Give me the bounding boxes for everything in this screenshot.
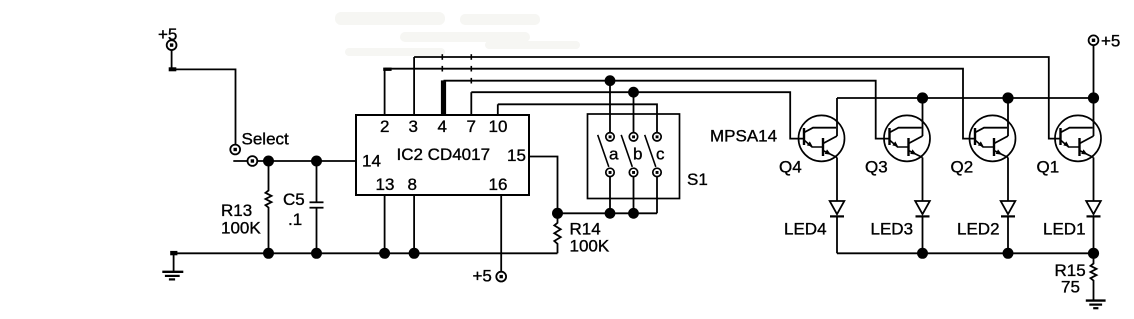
junction C5 bottom — [311, 248, 322, 259]
LED LED3 — [915, 201, 930, 253]
svg-text:15: 15 — [507, 146, 526, 165]
wire pin 13 down — [384, 195, 386, 253]
op-amp / IC U1 IC2 CD4017 box — [356, 115, 529, 195]
svg-text:75: 75 — [1061, 278, 1080, 297]
resistor R14 — [554, 213, 560, 253]
junction LED2 bottom — [1003, 248, 1014, 259]
svg-text:4: 4 — [438, 117, 447, 136]
power +5 bottom terminal — [496, 272, 506, 282]
wire pin 16 to +5 — [500, 195, 502, 272]
svg-text:10: 10 — [489, 117, 508, 136]
svg-text:100K: 100K — [570, 237, 610, 256]
svg-text:.1: .1 — [288, 210, 302, 229]
svg-text:Q3: Q3 — [865, 158, 888, 177]
svg-text:13: 13 — [376, 175, 395, 194]
ground left — [162, 251, 183, 280]
power +5 top-left terminal — [167, 40, 177, 50]
wire S1 a bottom — [609, 177, 611, 214]
svg-text:Q1: Q1 — [1037, 158, 1060, 177]
svg-text:b: b — [633, 145, 642, 164]
wire LED bottom rail — [837, 252, 1094, 254]
svg-text:LED2: LED2 — [957, 220, 1000, 239]
junction S1 b bottom — [628, 208, 639, 219]
switch S1 section c — [645, 133, 665, 177]
junction LED1 R15 — [1088, 248, 1099, 259]
wire S1 b riser — [633, 92, 635, 132]
ground right — [1086, 301, 1106, 309]
svg-text:16: 16 — [489, 175, 508, 194]
wire pin 10 riser — [497, 104, 499, 115]
svg-text:14: 14 — [362, 152, 381, 171]
svg-text:Q4: Q4 — [779, 158, 802, 177]
wire pin 7 to Q4 base — [471, 92, 804, 138]
capacitor C5 — [310, 161, 324, 253]
svg-text:7: 7 — [467, 117, 476, 136]
wire pin 3 to Q1 base — [414, 57, 1060, 139]
resistor R13 — [266, 161, 272, 253]
wire +5 top-right down — [1093, 45, 1095, 98]
junction Q2 collector — [1002, 92, 1013, 103]
LED LED2 — [1001, 201, 1016, 253]
switch Select terminal bottom — [248, 156, 258, 166]
svg-text:LED1: LED1 — [1043, 220, 1086, 239]
wire pin 2 to Q2 base — [385, 69, 975, 139]
ground rail left — [174, 252, 558, 254]
faint scan ghost marks — [335, 12, 580, 56]
junction Q3 collector — [917, 92, 928, 103]
junction pin 13 bottom — [379, 248, 390, 259]
svg-text:a: a — [609, 145, 619, 164]
wire pin 15 to R14 — [529, 157, 558, 214]
junction S1 b feed — [628, 87, 639, 98]
wire pin 10 to S1 c — [498, 104, 657, 132]
wire +5 to Select — [172, 69, 236, 144]
switch S1 section b — [621, 133, 642, 177]
svg-text:100K: 100K — [221, 219, 261, 238]
junction pin 8 bottom — [409, 248, 420, 259]
svg-text:c: c — [656, 145, 665, 164]
junction S1 a bottom — [605, 208, 616, 219]
wire pin 4 to Q3 base — [444, 81, 890, 139]
junction LED3 bottom — [917, 248, 928, 259]
wire pin 2 riser — [384, 69, 386, 115]
wire pin 2 elbow bold mark — [383, 68, 391, 71]
wire pin 3 riser — [413, 57, 415, 115]
switch Select terminal top — [230, 145, 240, 155]
power +5 top-right terminal — [1089, 35, 1099, 45]
wire +5 top-left down — [171, 50, 173, 69]
svg-text:3: 3 — [409, 117, 418, 136]
svg-text:LED4: LED4 — [784, 220, 827, 239]
wire S1 bottom rail — [558, 212, 658, 214]
svg-text:+5: +5 — [473, 267, 492, 286]
junction R13 bottom — [263, 248, 274, 259]
resistor R15 — [1091, 253, 1097, 300]
LED LED4 — [830, 201, 845, 253]
svg-text:C5: C5 — [283, 190, 305, 209]
svg-text:LED3: LED3 — [871, 220, 914, 239]
junction R14 top — [552, 208, 563, 219]
wire collector rail — [837, 97, 1094, 99]
transistor Q3 — [884, 98, 930, 201]
junction C5 top — [311, 156, 322, 167]
svg-text:+5: +5 — [1101, 32, 1120, 51]
wire Select rail to IC pin 14 — [233, 160, 356, 162]
switch S1 section a — [598, 133, 619, 177]
svg-text:S1: S1 — [687, 170, 708, 189]
wire pin 8 down — [413, 195, 415, 253]
svg-text:MPSA14: MPSA14 — [710, 127, 777, 146]
svg-text:R13: R13 — [221, 201, 252, 220]
wire S1 a riser — [609, 81, 611, 133]
transistor Q2 — [970, 98, 1016, 201]
switch S1 box — [588, 114, 680, 199]
svg-text:2: 2 — [380, 117, 389, 136]
junction Q1 collector +5 — [1088, 92, 1099, 103]
svg-text:IC2 CD4017: IC2 CD4017 — [397, 145, 491, 164]
wire elbow bold mark — [169, 67, 177, 71]
tick marks on bus lines — [442, 54, 471, 83]
transistor Q4 — [799, 98, 845, 201]
transistor Q1 — [1055, 98, 1101, 201]
svg-text:Q2: Q2 — [951, 158, 974, 177]
junction R13 top — [263, 156, 274, 167]
junction S1 a feed — [605, 75, 616, 86]
wire S1 c bottom — [656, 177, 658, 214]
svg-text:8: 8 — [408, 175, 417, 194]
svg-text:Select: Select — [242, 129, 290, 148]
LED LED1 — [1086, 201, 1101, 253]
wire pin 4 bold riser — [441, 80, 446, 115]
wire pin 7 riser — [470, 92, 472, 115]
wire S1 b bottom — [633, 177, 635, 214]
